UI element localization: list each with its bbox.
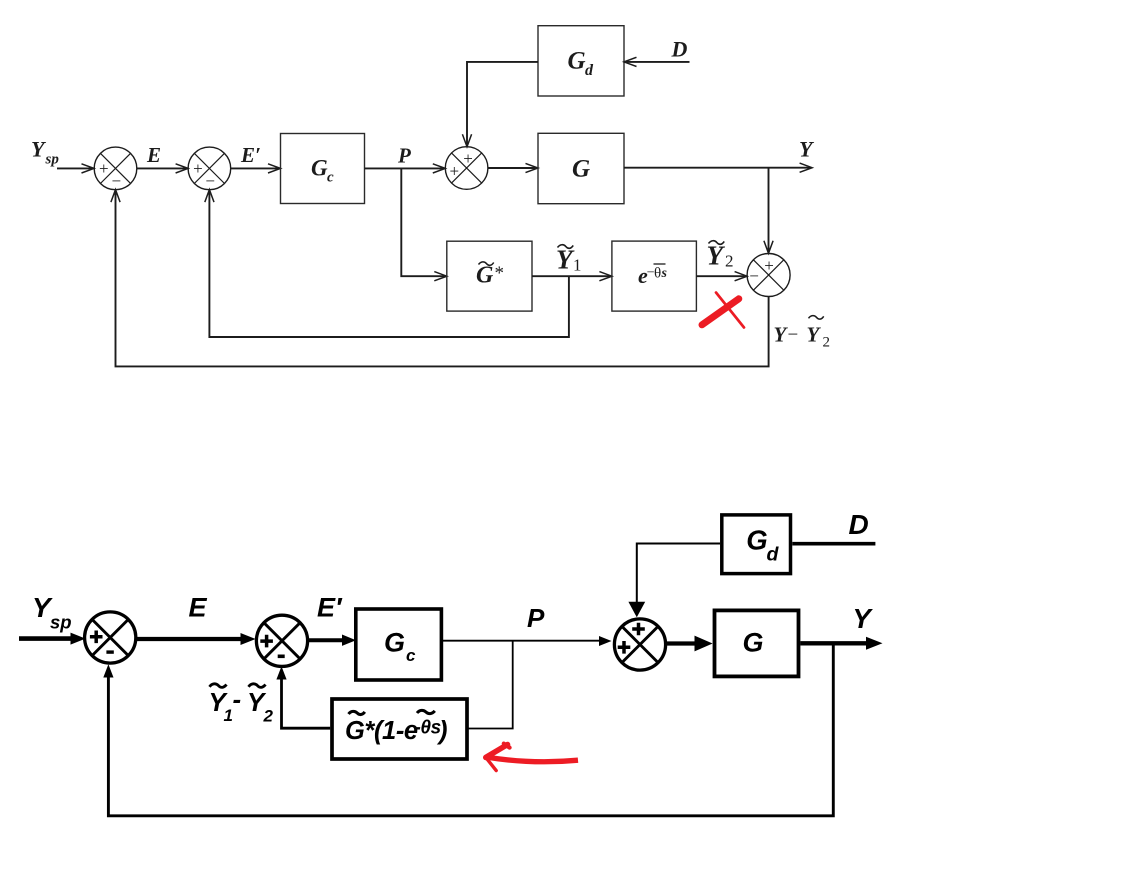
wire: P branch down into model block bbox=[401, 168, 447, 280]
svg-text:E: E bbox=[189, 592, 208, 622]
block predictor Gtilde-star(1-e^-thetatilde-s) bbox=[332, 699, 467, 759]
wire: G output to Y bbox=[624, 163, 812, 172]
svg-text:sp: sp bbox=[50, 612, 72, 633]
wire: delay output to summer S4, node Ytilde2 bbox=[696, 272, 747, 281]
svg-text:P: P bbox=[397, 144, 411, 168]
svg-text:d: d bbox=[767, 544, 780, 566]
svg-text:G: G bbox=[572, 156, 590, 183]
svg-text:Y: Y bbox=[807, 323, 822, 347]
svg-text:Y: Y bbox=[774, 323, 789, 347]
svg-text:G: G bbox=[743, 628, 764, 658]
svg-text:+: + bbox=[193, 159, 203, 178]
summing junction S1 bbox=[94, 147, 137, 190]
block Gd (disturbance, bottom) bbox=[722, 515, 791, 574]
block Gd (disturbance, top) bbox=[538, 26, 624, 96]
wire: S1b to S2b bbox=[136, 633, 256, 645]
svg-text:2: 2 bbox=[263, 707, 274, 726]
wire: D input into Gd bbox=[624, 57, 690, 66]
svg-text:1: 1 bbox=[573, 256, 582, 275]
wire: S2 to block Gc bbox=[231, 164, 281, 173]
summing junction S2b bbox=[256, 615, 307, 666]
wire: S3b to block G bbox=[664, 636, 712, 652]
svg-text:P: P bbox=[527, 603, 545, 633]
svg-text:G: G bbox=[568, 48, 586, 75]
svg-text:-θs: -θs bbox=[415, 718, 441, 739]
wire: S3 to block G bbox=[488, 163, 538, 172]
label Ytilde1 (top) bbox=[556, 245, 582, 275]
wire: Gd output left and down into S3b bbox=[628, 544, 720, 618]
summing junction S3b bbox=[614, 619, 665, 670]
summing junction S2 bbox=[188, 147, 231, 190]
block delay e^-thetabar-s (top) bbox=[612, 241, 697, 311]
svg-text:D: D bbox=[671, 37, 688, 62]
svg-text:−: − bbox=[749, 266, 759, 285]
wire: D line from Gd right bbox=[792, 542, 875, 546]
svg-text:θ: θ bbox=[654, 266, 661, 282]
summing junction S3 bbox=[445, 147, 488, 190]
svg-text:G*(1-e: G*(1-e bbox=[345, 717, 418, 745]
summing junction S4 bbox=[747, 254, 790, 297]
wire: predictor output left and up into S2b bbox=[276, 666, 330, 728]
svg-text:Y: Y bbox=[853, 603, 874, 634]
svg-text:*: * bbox=[495, 263, 505, 284]
annotation: red hand-drawn arrow bbox=[486, 744, 578, 771]
svg-text:G: G bbox=[311, 156, 328, 181]
wire: S1 to S2 bbox=[137, 164, 188, 173]
wire: model to delay block, node Ytilde1 bbox=[532, 272, 612, 281]
wire: G output to Y with branch bbox=[800, 637, 882, 650]
wire: setpoint input into summer S1b bbox=[19, 633, 86, 645]
label Ysp (bottom setpoint) bbox=[32, 592, 72, 633]
svg-text:−: − bbox=[788, 325, 799, 346]
svg-text:E′: E′ bbox=[240, 143, 261, 167]
label Ytilde1 minus Ytilde2 (bottom) bbox=[209, 684, 274, 726]
svg-text:sp: sp bbox=[45, 152, 60, 168]
svg-text:d: d bbox=[585, 62, 594, 79]
svg-text:E: E bbox=[146, 143, 161, 167]
svg-text:c: c bbox=[327, 170, 334, 186]
wire: S4 output down, along bottom, up into S1 (error feedback) bbox=[111, 190, 769, 367]
label Ysp (top setpoint) bbox=[31, 137, 59, 168]
wire: Y branch down, along bottom, up into S1b (outer feedback) bbox=[103, 643, 833, 816]
svg-text:Y: Y bbox=[707, 241, 726, 271]
block Gtilde-star (model, top) bbox=[447, 241, 532, 311]
svg-text:-: - bbox=[233, 684, 242, 714]
svg-text:−: − bbox=[205, 171, 215, 190]
label Ytilde2 (top) bbox=[707, 241, 734, 271]
svg-text:+: + bbox=[99, 159, 109, 178]
block Gc (controller, top) bbox=[281, 134, 365, 204]
svg-text:+: + bbox=[463, 149, 473, 168]
wire: Ytilde1 branch down, along, up into S2 (model feedback) bbox=[205, 190, 569, 337]
summing junction S1b bbox=[85, 612, 136, 663]
svg-text:s: s bbox=[661, 266, 668, 281]
svg-text:−: − bbox=[112, 171, 122, 190]
wire: Gc output to summer S3b, node P bbox=[442, 636, 612, 646]
svg-text:G: G bbox=[384, 628, 405, 658]
svg-text:2: 2 bbox=[725, 252, 734, 271]
svg-text:+: + bbox=[450, 162, 460, 181]
svg-text:G: G bbox=[476, 262, 494, 288]
block G (process, top) bbox=[538, 133, 624, 203]
block G (process, bottom) bbox=[715, 610, 799, 676]
wire: P branch down into predictor block bbox=[467, 641, 513, 729]
svg-text:D: D bbox=[849, 509, 869, 540]
svg-text:2: 2 bbox=[823, 334, 831, 350]
svg-text:E′: E′ bbox=[317, 592, 343, 622]
label Y minus Ytilde2 (top) bbox=[774, 316, 831, 351]
svg-text:c: c bbox=[406, 646, 416, 665]
block Gc (controller, bottom) bbox=[356, 609, 442, 680]
annotation: red X cross-out bbox=[702, 293, 744, 328]
wire: Gc output to summer S3 with node P bbox=[365, 164, 446, 173]
svg-text:+: + bbox=[764, 256, 774, 275]
svg-text:G: G bbox=[746, 525, 767, 556]
wire: Gd output down into summer S3 bbox=[462, 62, 538, 147]
wire: S2b to block Gc bbox=[307, 635, 357, 646]
wire: setpoint input into summer S1 bbox=[57, 164, 94, 173]
wire: Y branch down into summer S4 bbox=[764, 168, 773, 254]
